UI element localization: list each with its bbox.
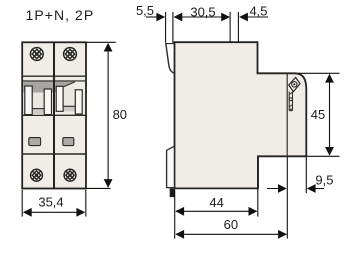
svg-text:35,4: 35,4 [38, 194, 63, 209]
svg-text:45: 45 [311, 107, 325, 122]
svg-text:60: 60 [224, 217, 238, 232]
svg-text:9,5: 9,5 [315, 172, 333, 187]
svg-text:30,5: 30,5 [190, 4, 215, 19]
svg-text:44: 44 [209, 195, 223, 210]
svg-text:5,5: 5,5 [136, 3, 154, 18]
svg-text:1P+N, 2P: 1P+N, 2P [26, 7, 95, 23]
svg-text:80: 80 [113, 107, 127, 122]
svg-text:4,5: 4,5 [249, 3, 267, 18]
